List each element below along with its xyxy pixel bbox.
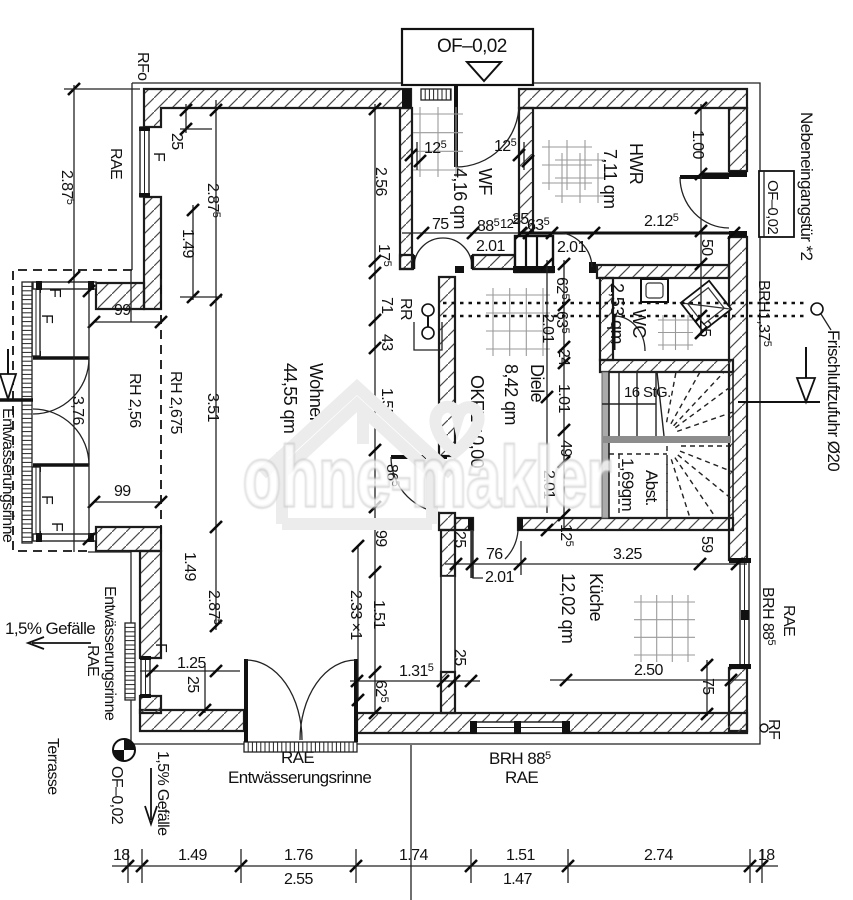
stairs west wall (602, 372, 609, 518)
svg-text:OF–0,02: OF–0,02 (437, 36, 507, 57)
svg-text:75: 75 (699, 678, 716, 695)
svg-text:1,69qm: 1,69qm (618, 458, 637, 512)
svg-text:F: F (48, 522, 65, 532)
svg-text:F: F (38, 314, 55, 324)
outer roof-overhang outline right/bottom (131, 237, 760, 744)
HWR niche lintel (701, 173, 729, 176)
svg-text:4,16 qm: 4,16 qm (450, 168, 470, 229)
chain 99 upper (terrace) (94, 321, 161, 323)
svg-text:F: F (150, 152, 167, 162)
wall west lower (exterior) (140, 551, 161, 658)
svg-text:2.50: 2.50 (634, 662, 663, 679)
svg-text:18: 18 (758, 847, 775, 864)
svg-text:3,76: 3,76 (69, 396, 86, 425)
svg-text:HWR: HWR (626, 143, 646, 185)
svg-text:3.25: 3.25 (613, 546, 642, 563)
side entrance door jambs in right wall (729, 171, 747, 177)
axis line below OF box (410, 745, 412, 900)
1,5% Gefaelle arrow bottom vertical (150, 768, 152, 820)
svg-text:25: 25 (184, 676, 201, 693)
wall between Wohnen and Diele (439, 277, 455, 456)
bay north header window (33, 282, 96, 289)
bay south header window (33, 534, 96, 541)
wall top-left (exterior) (144, 89, 411, 127)
svg-text:1,5% Gefälle: 1,5% Gefälle (5, 619, 95, 638)
kitchen door leaf + swing (470, 530, 474, 578)
Frischluftzufuhr circle (811, 303, 823, 315)
svg-text:OF–0,02: OF–0,02 (764, 180, 781, 234)
entrance side-light left jamb (402, 89, 411, 108)
svg-text:Entwässerungsrinne: Entwässerungsrinne (0, 408, 16, 543)
second left chain 2,87-5 / 1,49 upper (215, 100, 217, 300)
Entwaesserungsrinne strip left of terrace (22, 282, 32, 543)
svg-text:2.55: 2.55 (284, 871, 313, 888)
wall WF south, left piece (400, 255, 413, 269)
svg-text:59: 59 (698, 536, 715, 553)
terrace-side double door leaves + swings (3,76 front) (33, 356, 89, 360)
kitchen sink symbol (640, 595, 642, 662)
svg-text:8,42 qm: 8,42 qm (501, 364, 521, 425)
wall bottom-left (exterior) below living room (140, 710, 244, 731)
wall right (exterior) below side-entrance (729, 237, 747, 560)
svg-text:1.25: 1.25 (177, 655, 206, 672)
chain 99 lower (terrace) (94, 501, 161, 503)
stair outline (609, 372, 733, 518)
bottom dimension chain (112, 865, 778, 867)
svg-text:Frischluftzufuhr Ø20: Frischluftzufuhr Ø20 (824, 330, 843, 471)
svg-text:1.49: 1.49 (181, 552, 198, 581)
svg-text:RF: RF (765, 719, 782, 740)
dim line y=681 (1,31-5 / 25) (350, 680, 480, 682)
svg-text:RH 2,675: RH 2,675 (167, 371, 184, 434)
svg-text:RAE: RAE (281, 748, 314, 767)
WC door leaf + swing (613, 316, 616, 350)
terrace dashed outline (13, 270, 132, 551)
kitchen south window (BRH 88) (476, 722, 563, 733)
svg-text:25: 25 (696, 320, 713, 337)
svg-text:2.56: 2.56 (372, 167, 389, 196)
svg-text:BRH 885: BRH 885 (759, 587, 777, 645)
WF closet symbol (419, 107, 421, 177)
svg-text:2.74: 2.74 (644, 847, 673, 864)
side entrance door leaf + swing (Nebeneingang) (680, 175, 729, 179)
Entwaesserungsrinne strip lower-left (125, 623, 135, 700)
OF survey point circle bottom-left (113, 739, 135, 761)
stair winder treads above cut (dashed) (667, 372, 676, 422)
stair cut bar (602, 436, 731, 443)
WF to Diele door arc (414, 238, 472, 267)
Entwaesserungsrinne in front of terrace door (RAE) (244, 742, 357, 752)
svg-text:OF–0,02: OF–0,02 (108, 766, 125, 825)
svg-text:1.49: 1.49 (179, 229, 196, 258)
terrace front window end blocks (31, 288, 41, 293)
svg-text:1,5% Gefälle: 1,5% Gefälle (154, 751, 171, 836)
svg-text:2.01: 2.01 (539, 314, 556, 343)
svg-text:12,02 qm: 12,02 qm (558, 573, 578, 643)
svg-text:Küche: Küche (586, 573, 606, 622)
svg-text:Diele: Diele (527, 364, 547, 403)
svg-text:44,55 qm: 44,55 qm (280, 363, 300, 433)
wall right (exterior) upper to side-entrance door (729, 108, 747, 171)
svg-text:RR: RR (397, 298, 414, 320)
svg-text:RAE: RAE (107, 148, 124, 179)
bay north wall (96, 283, 144, 309)
kitchen door jambs (468, 518, 473, 530)
svg-text:1.00: 1.00 (689, 130, 706, 159)
Wohnen to Diele door leaf + swing (391, 455, 447, 459)
Diele dim chain x=564 (563, 260, 565, 530)
1,5% Gefaelle arrow left bottom (32, 642, 91, 644)
chain 3,51 / 1,49 lower left (215, 300, 217, 630)
wall WC west (600, 278, 613, 360)
svg-text:99: 99 (114, 483, 131, 500)
svg-text:43: 43 (378, 334, 395, 351)
svg-text:1.01: 1.01 (555, 384, 572, 413)
side porch OF-0,02 box right (759, 171, 794, 237)
svg-text:F: F (38, 495, 55, 505)
terrace glass front upper window (32, 288, 40, 356)
wall kitchen north from door to right wall (518, 518, 733, 530)
triangle symbol in OF box (467, 62, 501, 81)
entrance door leaf + swing (454, 86, 458, 167)
dim chain 75 kitchen right (706, 660, 708, 716)
Diele wardrobe symbol (492, 288, 494, 356)
wall west upper pier (144, 197, 161, 309)
terrace double door swings (246, 660, 302, 740)
svg-text:RAE: RAE (84, 645, 101, 676)
terrace glass front lower window (32, 467, 40, 536)
svg-text:24: 24 (555, 349, 572, 366)
left outer dimension chain 2,87-5 (73, 85, 75, 277)
wall kitchen north, left piece (455, 518, 473, 530)
RR rain pipe symbol (422, 304, 434, 316)
Wohnen 2,33 chain (357, 546, 359, 700)
Frischluftzufuhr arrow right (805, 347, 807, 378)
svg-text:Entwässerungsrinne: Entwässerungsrinne (228, 768, 371, 787)
svg-text:25: 25 (451, 531, 468, 548)
WC toilet symbol (662, 315, 664, 350)
watermark ohne-makler text (243, 430, 611, 524)
door jamb east of HWR door (589, 262, 596, 273)
svg-text:WC: WC (629, 309, 649, 338)
chain 1,49 upper (192, 205, 194, 300)
bay south wall (96, 527, 161, 551)
chimney flue block (515, 236, 553, 272)
svg-text:18: 18 (113, 847, 130, 864)
Diele dim chain x=547 (546, 260, 548, 513)
outer roof-overhang outline top (132, 82, 402, 84)
svg-text:2.01: 2.01 (557, 239, 586, 256)
svg-text:WF: WF (475, 168, 495, 195)
WC rotated appliance (681, 281, 732, 332)
svg-text:F: F (46, 288, 63, 298)
svg-text:1.76: 1.76 (284, 847, 313, 864)
wall Essen/kitchen lower (441, 672, 455, 713)
wall bottom (exterior) kitchen (357, 713, 747, 733)
svg-text:99: 99 (372, 530, 389, 547)
svg-text:RH 2,56: RH 2,56 (126, 373, 143, 428)
svg-text:7,11 qm: 7,11 qm (600, 149, 620, 209)
svg-text:RFo: RFo (134, 52, 151, 81)
low partition Essen/kitchen (no hatch) (441, 576, 455, 672)
svg-text:RAE: RAE (505, 768, 538, 787)
svg-text:Entwässerungsrinne: Entwässerungsrinne (101, 586, 118, 721)
WC washbasin (641, 279, 668, 302)
svg-text:99: 99 (114, 302, 131, 319)
svg-text:3.51: 3.51 (204, 393, 221, 422)
svg-text:BRH1,375: BRH1,375 (755, 280, 773, 347)
wall WF south, middle pier (473, 255, 521, 269)
svg-text:Abst.: Abst. (642, 470, 661, 506)
wall WC south / stairs north (600, 360, 733, 372)
svg-text:2.01: 2.01 (485, 569, 514, 586)
svg-text:16 StG.: 16 StG. (624, 384, 671, 401)
terrace edge line (73, 270, 75, 552)
svg-text:1.51: 1.51 (506, 847, 535, 864)
window F in west wall upper (RAE) (140, 127, 149, 197)
svg-text:Nebeneingangstür *2: Nebeneingangstür *2 (797, 112, 816, 260)
dotted section line lower (443, 315, 808, 318)
chain 25 top-left (185, 104, 187, 133)
svg-text:1.51: 1.51 (370, 600, 387, 629)
svg-text:2,53 qm: 2,53 qm (607, 283, 627, 344)
dim chain right 1,00 / 50 / 25 (700, 104, 702, 336)
left drainage arrow (7, 349, 9, 374)
wall right (exterior) below east kitchen window (729, 668, 747, 731)
svg-text:ohne-makler: ohne-makler (243, 430, 611, 524)
wall between WF and HWR (519, 108, 533, 233)
wall WC north (597, 265, 729, 278)
chain 3,76 terrace front (88, 291, 90, 539)
svg-text:2.33 ×1: 2.33 ×1 (347, 590, 364, 640)
RF rain pipe circle bottom-right (760, 724, 768, 732)
svg-text:BRH 885: BRH 885 (489, 749, 551, 768)
HWR south partition line (519, 232, 747, 235)
HWR appliance symbol (548, 140, 550, 190)
svg-text:75: 75 (432, 216, 449, 233)
Wohnen right dimension chain (374, 104, 376, 713)
side-light glazing at house entrance (421, 89, 451, 100)
dim line kitchen door y=564 (445, 563, 747, 565)
door1 landing corner block (455, 266, 464, 273)
svg-text:RAE: RAE (780, 605, 797, 636)
terrace double door leaves (244, 659, 248, 742)
stair winder treads below cut (dashed) (681, 445, 733, 447)
HWR dim line y=233 ticks (417, 227, 429, 239)
svg-text:1.47: 1.47 (503, 871, 532, 888)
dim line kitchen y=680 (2,50) (550, 679, 747, 681)
watermark house logo (262, 387, 479, 524)
kitchen east window (BRH 88) (740, 560, 749, 668)
wall top-right (exterior) (519, 89, 747, 108)
wall between Wohnen and WF (400, 108, 412, 269)
Diele to HWR door swing (555, 232, 592, 267)
svg-text:1.49: 1.49 (178, 847, 207, 864)
svg-text:2.01: 2.01 (476, 238, 505, 255)
12-5 wall ticks top WF (416, 142, 418, 170)
svg-text:Terrasse: Terrasse (44, 738, 61, 795)
svg-text:50: 50 (698, 239, 715, 256)
svg-text:25: 25 (451, 649, 468, 666)
window F in west wall lower (141, 658, 150, 696)
wall between Essen and kitchen upper (441, 530, 455, 576)
svg-text:25: 25 (168, 133, 185, 150)
OF-0,02 box above entrance (402, 29, 533, 85)
dotted section line upper (443, 302, 808, 305)
svg-text:F: F (152, 643, 169, 653)
chain RH dashed center line (160, 270, 162, 552)
svg-text:1.74: 1.74 (399, 847, 428, 864)
stair straight flight risers (618, 372, 620, 436)
svg-text:71: 71 (378, 297, 395, 314)
left lower chain 1,25 / 25 (140, 670, 240, 672)
dim chain 59 kitchen right top (694, 558, 706, 570)
svg-text:76: 76 (486, 546, 503, 563)
Abst. storage dashed boundary (618, 454, 620, 518)
